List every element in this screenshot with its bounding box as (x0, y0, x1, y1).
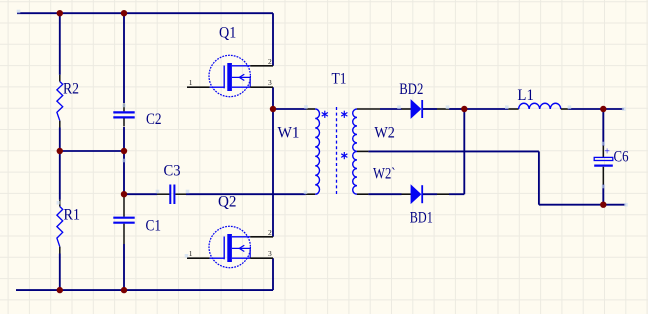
wire (124, 193, 157, 195)
wire (463, 109, 465, 194)
svg-text:Q1: Q1 (219, 25, 236, 42)
capacitor C6 (polarized) (602, 146, 604, 158)
wire (123, 151, 125, 194)
wire (464, 108, 508, 110)
resistor R1 (59, 200, 61, 207)
wire (423, 193, 437, 195)
wire (602, 109, 604, 146)
polarity dot W2* (343, 111, 345, 118)
wire (368, 193, 401, 195)
junction node A (57, 10, 63, 16)
svg-text:R2: R2 (63, 81, 79, 98)
pin W2` bottom (357, 193, 368, 195)
transformer core T1 (336, 107, 338, 197)
wire (59, 13, 61, 75)
capacitor C1 (123, 195, 125, 217)
svg-text:C3: C3 (164, 163, 181, 180)
svg-text:R1: R1 (64, 206, 81, 223)
wire (602, 185, 604, 205)
resistor R2 (59, 75, 61, 82)
svg-text:L1: L1 (517, 87, 534, 104)
wire (272, 13, 274, 66)
diode BD2 (402, 108, 412, 110)
junction node B (121, 10, 127, 16)
svg-text:W2: W2 (374, 124, 395, 141)
svg-text:2: 2 (268, 57, 272, 66)
inductor L1 (508, 108, 519, 110)
svg-text:BD2: BD2 (399, 81, 423, 98)
junction node G (121, 287, 127, 293)
connection grid marks (artifacts) (17, 10, 21, 14)
svg-text:Q2: Q2 (218, 194, 237, 211)
wire (59, 254, 61, 291)
transistor Q2 (N-MOSFET) (209, 226, 250, 267)
polarity dot W1* (324, 111, 326, 118)
junction node F (57, 287, 63, 293)
wire (423, 108, 437, 110)
pin W1 bottom (306, 193, 315, 195)
svg-text:1: 1 (189, 249, 193, 258)
wire (272, 87, 274, 237)
capacitor C2 (123, 103, 125, 111)
junction node J (600, 106, 606, 112)
junction node K (600, 202, 606, 208)
junction node I (461, 106, 467, 112)
capacitor C3 (157, 193, 170, 195)
wire (568, 108, 624, 110)
pin W1 top (306, 108, 315, 110)
svg-text:2: 2 (268, 228, 272, 237)
wire (272, 258, 274, 290)
svg-text:3: 3 (268, 249, 272, 258)
pin W2 top (357, 108, 380, 110)
wire (273, 108, 306, 110)
wire (123, 127, 125, 151)
transformer winding W2` (353, 151, 357, 194)
transformer winding W2 (353, 109, 357, 151)
svg-text:W2`: W2` (373, 166, 396, 183)
junction node D (121, 148, 127, 154)
wire (59, 151, 61, 200)
svg-text:T1: T1 (332, 71, 347, 88)
svg-text:C6: C6 (614, 148, 629, 165)
transformer winding W1 (315, 109, 319, 194)
junction node E (121, 191, 127, 197)
svg-text:C2: C2 (146, 111, 162, 128)
wire top rail (17, 12, 273, 14)
svg-text:3: 3 (268, 78, 272, 87)
svg-text:W1: W1 (278, 124, 300, 141)
junction node H (270, 106, 276, 112)
transistor Q1 (N-MOSFET) (209, 55, 250, 96)
diode BD1 (402, 193, 412, 195)
wire (449, 193, 464, 195)
svg-text:1: 1 (189, 78, 193, 87)
wire (368, 150, 539, 152)
polarity dot W2`* (343, 152, 345, 159)
wire bottom rail (16, 289, 273, 291)
wire (123, 244, 125, 290)
wire (539, 204, 625, 206)
wire (380, 108, 402, 110)
pin W2/W2` center tap (357, 150, 368, 152)
svg-text:BD1: BD1 (410, 210, 433, 227)
wire (59, 128, 61, 152)
wire (186, 193, 306, 195)
wire (60, 150, 124, 152)
junction node C (57, 148, 63, 154)
wire (123, 13, 125, 103)
wire (538, 151, 540, 204)
svg-text:C1: C1 (146, 218, 162, 235)
svg-text:+: + (604, 147, 610, 158)
wire (449, 108, 464, 110)
